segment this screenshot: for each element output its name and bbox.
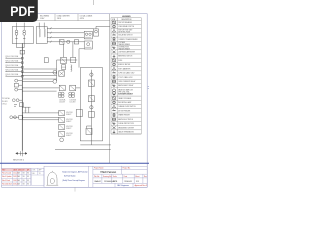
bottom collector bus xyxy=(55,149,111,151)
svg-text:BY: BY xyxy=(23,170,25,172)
svg-text:MH: MH xyxy=(32,173,34,175)
feeder rung L2 xyxy=(6,62,24,64)
transformer T1 xyxy=(15,30,18,41)
title block frame xyxy=(44,166,147,187)
svg-text:Rev-2 Final: Rev-2 Final xyxy=(2,180,10,182)
feeder rung L5 xyxy=(6,75,24,77)
labels cluster G xyxy=(66,112,73,137)
svg-text:LV: LV xyxy=(25,111,27,113)
svg-text:DESCRIPTION: DESCRIPTION xyxy=(122,19,132,21)
CT circle on feeder xyxy=(67,40,70,43)
LV feeder box G4 xyxy=(59,131,65,136)
drawing/legend divider xyxy=(109,14,111,163)
bus join from T2 xyxy=(17,41,25,48)
wire bus to switchboard E4 xyxy=(22,78,56,80)
chain bend wire xyxy=(87,126,92,128)
metering box C3 xyxy=(94,29,99,36)
svg-text:Rev: Rev xyxy=(144,176,147,178)
svg-text:LEGEND: LEGEND xyxy=(122,16,131,18)
feeder rung L3 xyxy=(6,66,24,68)
wire feeder y28 xyxy=(47,27,93,29)
svg-text:SB: SB xyxy=(23,173,25,175)
blue divider rule xyxy=(0,162,149,164)
LV feeder box G3 xyxy=(59,124,65,129)
chain box K4 xyxy=(86,128,92,134)
switchboard cluster E outline xyxy=(57,60,78,81)
svg-text:415V FDR: 415V FDR xyxy=(66,119,73,121)
labels H xyxy=(2,97,26,112)
metering box C2 xyxy=(84,41,92,49)
CT on wire E2 xyxy=(53,80,57,84)
wire bus to switchboard E1 xyxy=(22,68,56,70)
svg-text:SWITCH FUSE UNIT: SWITCH FUSE UNIT xyxy=(118,30,132,32)
wire feeder y42 xyxy=(47,41,84,43)
svg-text:HSED Pakistan: HSED Pakistan xyxy=(100,171,117,174)
transformer bay box A xyxy=(12,27,33,44)
svg-text:SECTION 1: SECTION 1 xyxy=(13,159,25,161)
fold mark bottom xyxy=(74,187,76,191)
H drop wires xyxy=(22,107,30,113)
svg-text:415V FDR: 415V FDR xyxy=(66,126,73,128)
CT coil in bay B xyxy=(39,29,40,37)
svg-text:SB: SB xyxy=(23,180,25,182)
svg-text:SB: SB xyxy=(23,183,25,185)
feeder panel F box1 xyxy=(59,85,65,91)
chain box K1 xyxy=(88,80,94,86)
breaker box E2 xyxy=(71,57,76,62)
svg-text:415V FDR: 415V FDR xyxy=(66,133,73,135)
svg-text:WITH HRC FUSE: WITH HRC FUSE xyxy=(118,31,130,33)
legend title xyxy=(122,16,131,18)
title block bottom strip xyxy=(117,184,146,187)
wire feeder y33 xyxy=(47,32,84,34)
bus coupler box xyxy=(20,50,24,54)
svg-text:MJ: MJ xyxy=(27,176,29,178)
dome logo xyxy=(46,171,58,185)
approval box xyxy=(32,168,44,185)
bus riser relay box xyxy=(14,83,22,87)
chain box K2 xyxy=(88,96,94,102)
legend rows xyxy=(112,21,138,133)
feeder labels left xyxy=(6,55,19,76)
LV feeder box G2 xyxy=(59,117,65,122)
svg-text:11/0.4KV: 11/0.4KV xyxy=(59,102,65,104)
svg-text:DISTRIBUTION: DISTRIBUTION xyxy=(118,46,129,48)
svg-text:REV: REV xyxy=(2,170,5,172)
bottom collector bus 2 xyxy=(80,144,111,146)
SECTION 1 label xyxy=(13,159,25,161)
svg-text:SURGE PROTECTION: SURGE PROTECTION xyxy=(118,123,134,125)
transformer pair F1 xyxy=(58,92,64,98)
svg-text:Drawing No.: Drawing No. xyxy=(103,176,112,178)
svg-text:BEC Engineers: BEC Engineers xyxy=(117,184,129,187)
drawing title lines xyxy=(62,171,87,182)
legend table xyxy=(111,18,141,134)
svg-text:MJ: MJ xyxy=(27,173,29,175)
wire feeder y37 xyxy=(47,36,84,38)
bus riser meter xyxy=(15,88,23,91)
title block values xyxy=(95,171,140,183)
revision header fill xyxy=(2,168,31,171)
chain CT1 xyxy=(90,73,93,76)
svg-text:PDF: PDF xyxy=(10,4,35,19)
drop wire from feeder to E2 xyxy=(72,42,74,58)
sheet border frame xyxy=(2,14,148,188)
svg-text:Scale: Scale xyxy=(113,176,117,178)
main bus 11kV xyxy=(21,43,23,150)
svg-text:MJ: MJ xyxy=(27,183,29,185)
svg-text:11/0.4KV: 11/0.4KV xyxy=(2,101,8,103)
winding symbol E5 xyxy=(71,65,72,72)
wire bus y81 xyxy=(22,80,53,82)
transformer pair F2 xyxy=(69,92,75,98)
disconnect box on feeder xyxy=(59,40,64,45)
svg-text:CHK: CHK xyxy=(32,170,35,172)
isolator slashes on feeders xyxy=(50,27,52,43)
aux box near bus top xyxy=(44,58,48,63)
fold mark top xyxy=(93,0,95,5)
svg-text:SB: SB xyxy=(23,176,25,178)
earth circle under G xyxy=(60,138,64,142)
breaker box E1 xyxy=(61,57,67,63)
chain box K3 xyxy=(88,112,94,118)
svg-text:Approved Rev-3: Approved Rev-3 xyxy=(135,184,147,187)
revision texts xyxy=(2,169,29,186)
wires bus to G xyxy=(22,113,59,120)
CT on wire E xyxy=(53,70,57,74)
svg-text:FUSE: FUSE xyxy=(118,60,122,62)
wires bus to F xyxy=(22,88,59,91)
labels under F xyxy=(59,99,76,104)
svg-text:1190-03: 1190-03 xyxy=(124,181,132,183)
svg-text:11/0.4KV: 11/0.4KV xyxy=(70,102,76,104)
metering box C1 xyxy=(84,31,92,39)
wire C to divider xyxy=(96,25,110,27)
header strip dividers xyxy=(2,14,110,21)
margin annotation mark xyxy=(148,87,149,89)
transformer T2 xyxy=(23,30,26,41)
svg-text:NTS: NTS xyxy=(113,181,118,183)
bus riser CT xyxy=(15,79,23,82)
title block labels xyxy=(94,167,147,178)
panel outline D xyxy=(80,68,102,141)
svg-text:IBA-02: IBA-02 xyxy=(95,180,102,183)
svg-text:415V FDR: 415V FDR xyxy=(66,112,73,114)
wire bus to switchboard E2 xyxy=(22,71,56,73)
breaker with cross E4 xyxy=(59,71,65,76)
wire C3 lead xyxy=(95,26,97,29)
header labels xyxy=(40,15,93,20)
svg-text:TR: TR xyxy=(39,173,41,175)
drop wire from feeder to E1 xyxy=(63,44,65,57)
aux box E3 xyxy=(62,65,66,70)
feeder rung L4 xyxy=(6,71,24,73)
bus tap H row1 CTs xyxy=(12,99,23,107)
svg-text:MJ: MJ xyxy=(27,180,29,182)
metering bay box B xyxy=(36,27,47,44)
VT coil in bay B xyxy=(44,29,45,37)
revision table xyxy=(1,168,30,185)
stub wire cluster C to panel D xyxy=(79,49,84,68)
bus tap H row2 xyxy=(10,115,23,119)
stub F to panel D xyxy=(76,87,81,89)
relay box on feeder xyxy=(74,40,78,44)
incoming leads to T1 T2 xyxy=(17,23,25,31)
svg-text:ENERGY METER: ENERGY METER xyxy=(118,64,131,66)
svg-text:MOTOR FEEDER: MOTOR FEEDER xyxy=(118,110,131,112)
section feeder symbol xyxy=(16,151,27,157)
PDF badge xyxy=(0,0,38,22)
wire bus to switchboard E3 xyxy=(22,75,56,77)
LV feeder box G1 xyxy=(59,110,65,115)
svg-text:DYN-11: DYN-11 xyxy=(2,103,7,105)
chain CT2 xyxy=(90,106,93,109)
feeder panel F box2 xyxy=(70,85,76,91)
leads bay B xyxy=(39,23,44,29)
side box on D xyxy=(76,110,82,117)
riser wire chain xyxy=(90,70,92,145)
feeder rung L1 xyxy=(6,57,24,59)
legend header text xyxy=(112,19,131,21)
approval texts xyxy=(32,169,41,176)
svg-text:Rev-0 Issued: Rev-0 Issued xyxy=(2,173,11,175)
